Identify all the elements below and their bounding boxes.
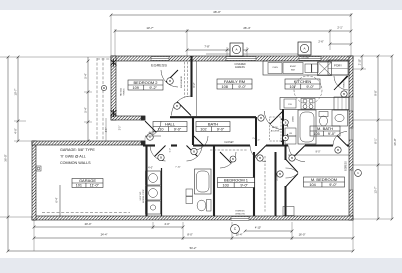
svg-text:B: B: [176, 104, 178, 108]
svg-text:26'-4": 26'-4": [243, 26, 250, 30]
svg-text:9'-0": 9'-0": [306, 85, 314, 89]
svg-text:FAMILY RM: FAMILY RM: [224, 79, 245, 84]
tick y219 right: [353, 218, 392, 220]
m.bath west wall: [282, 109, 284, 146]
closet callout bedroom2: [167, 78, 174, 85]
hall north wall: [170, 116, 256, 118]
garage east wall: [145, 145, 147, 216]
door callout msuite: [289, 155, 295, 161]
svg-text:104: 104: [309, 183, 315, 187]
svg-text:4'-0": 4'-0": [164, 222, 169, 226]
dim line 8-0 m.bedroom: [288, 154, 349, 156]
porch column A box: [230, 43, 243, 56]
laundry hall door: [155, 146, 166, 157]
svg-text:4'-0": 4'-0": [149, 132, 154, 135]
hall/bath wall: [192, 117, 194, 145]
kitchen hall door: [270, 111, 283, 124]
pantry door: [338, 76, 348, 86]
svg-text:102: 102: [200, 127, 206, 131]
svg-text:ATTIC: ATTIC: [272, 126, 278, 129]
svg-text:36'-0": 36'-0": [393, 138, 397, 145]
tick x292: [291, 222, 293, 240]
m.bedroom egress window: [349, 170, 353, 190]
bedroom2 east wall: [190, 56, 192, 97]
svg-text:GARAGE: 5/8" TYPE: GARAGE: 5/8" TYPE: [60, 148, 95, 152]
m.bath door: [337, 136, 347, 146]
m.bedroom double doors: [286, 159, 299, 173]
linen boxes: [285, 128, 296, 136]
room label bath: [196, 122, 230, 132]
roof overhang dashed top: [97, 58, 111, 60]
svg-text:9'-0": 9'-0": [329, 183, 337, 187]
entry post upper: [141, 116, 146, 121]
wic rod dashed: [264, 156, 266, 212]
svg-text:M. BEDROOM: M. BEDROOM: [311, 177, 337, 182]
bath tub: [195, 169, 212, 194]
svg-text:9'-2": 9'-2": [149, 86, 157, 90]
svg-text:4'-6": 4'-6": [106, 128, 108, 133]
pantry: [328, 60, 348, 75]
strip south wall seg1: [143, 144, 155, 146]
svg-text:B: B: [260, 116, 262, 120]
dishwasher: [284, 99, 296, 108]
strip south wall seg4: [266, 144, 288, 146]
family rm cabinet: [334, 97, 349, 110]
svg-text:13'-7": 13'-7": [374, 187, 378, 194]
svg-text:11'-0": 11'-0": [90, 183, 100, 187]
room label hall: [153, 122, 187, 132]
svg-text:COMMON WALLS: COMMON WALLS: [60, 161, 91, 165]
strip south wall seg2: [171, 144, 177, 146]
ext line y57 left: [0, 56, 111, 58]
garage door dashed: [42, 212, 130, 214]
svg-text:WINDOW: WINDOW: [235, 214, 246, 216]
svg-text:BATH: BATH: [208, 122, 218, 127]
door callout m.bedroom: [277, 171, 283, 177]
tick x88 y92: [84, 91, 92, 93]
bedroom2 closet shelf dashed: [187, 62, 189, 97]
garage wall symbol: [36, 166, 41, 171]
bedroom2 closet door: [166, 70, 178, 82]
tick y165 right: [353, 164, 392, 166]
room label garage: [72, 179, 103, 188]
entry notch wall: [111, 116, 145, 120]
porch slab edge: [206, 53, 300, 55]
bedroom2 left exterior wall: [111, 56, 116, 120]
holdown anchor top: [111, 59, 117, 67]
svg-text:2'-0": 2'-0": [252, 138, 257, 140]
hall shelves: [186, 189, 193, 196]
tick x232: [231, 222, 233, 240]
dimension row3 line left: [187, 49, 247, 51]
right chain small: [361, 56, 363, 69]
bedroom1 door: [255, 146, 266, 157]
svg-text:B: B: [343, 92, 345, 96]
room label bedroom 1: [218, 178, 255, 188]
bottom chain row1: [34, 226, 183, 228]
dimension 46-0 line: [111, 14, 351, 16]
right chain mid: [377, 56, 379, 219]
m.bedroom west wall a: [285, 146, 287, 160]
svg-text:101: 101: [76, 183, 82, 187]
m.bedroom window seat: [283, 207, 294, 216]
kitchen window: [299, 56, 321, 60]
strip south wall seg3: [193, 144, 250, 146]
closet rod dashed bedroom1: [210, 149, 248, 151]
svg-text:EGRESS: EGRESS: [235, 67, 245, 69]
column callout A2: [300, 44, 308, 52]
ext line x187: [186, 29, 188, 56]
entry recess edge: [105, 118, 107, 141]
family rm window: [349, 97, 353, 111]
svg-text:HALL: HALL: [165, 122, 176, 127]
svg-text:OVEN: OVEN: [272, 67, 278, 69]
svg-text:CLOSET: CLOSET: [277, 172, 279, 181]
svg-text:110: 110: [157, 127, 163, 131]
svg-text:9'-0": 9'-0": [238, 85, 246, 89]
porch column A2 box: [298, 42, 311, 55]
roof overhang dashed line a: [96, 58, 98, 141]
tick y121: [14, 120, 26, 122]
svg-text:2'-1": 2'-1": [337, 26, 342, 30]
pantry door second leaf: [334, 76, 347, 90]
garage top wall: [32, 141, 145, 145]
m.bedroom west wall b: [285, 186, 287, 216]
ext line y217 left: [0, 216, 32, 218]
left chain 36-0: [7, 57, 9, 251]
svg-text:105: 105: [313, 132, 319, 136]
svg-text:EGRESS: EGRESS: [346, 161, 348, 171]
hallway west wall: [255, 117, 257, 146]
room label m bedroom: [304, 177, 345, 187]
exterior right wall: [349, 56, 353, 220]
door callout laundry: [158, 154, 164, 160]
svg-text:COVERED: COVERED: [234, 64, 246, 66]
svg-text:CLOSET: CLOSET: [224, 141, 234, 144]
bottom chain row3 54-2: [8, 250, 353, 252]
svg-text:A: A: [303, 47, 305, 51]
svg-text:3'-0": 3'-0": [120, 126, 122, 131]
svg-text:13'-7": 13'-7": [146, 26, 153, 30]
door callout hall south: [191, 148, 197, 154]
svg-text:9'-0": 9'-0": [240, 183, 248, 187]
svg-text:B: B: [169, 79, 171, 83]
svg-text:6'-4": 6'-4": [56, 197, 59, 202]
room label m bath: [310, 126, 340, 136]
cooktop: [301, 99, 315, 110]
svg-text:24'-4": 24'-4": [101, 233, 108, 237]
svg-text:9'-8": 9'-8": [374, 90, 378, 95]
hall to m.suite door: [294, 146, 306, 158]
bedroom2 closet rod dashed: [184, 62, 186, 97]
bedroom1 east wall: [253, 152, 255, 216]
laundry tub: [146, 201, 161, 214]
oven box: [268, 63, 282, 74]
svg-text:6'-2": 6'-2": [193, 82, 196, 87]
svg-text:B: B: [160, 156, 162, 160]
svg-text:BEDROOM 2: BEDROOM 2: [133, 80, 158, 85]
room label family rm: [217, 79, 252, 89]
covered egress sliding door: [226, 56, 256, 60]
svg-text:A: A: [235, 48, 237, 52]
svg-text:9'-0": 9'-0": [174, 127, 182, 131]
svg-text:9'-0": 9'-0": [217, 127, 225, 131]
svg-text:4'-10": 4'-10": [255, 227, 261, 230]
counter cabinet: [283, 63, 303, 74]
roof overhang dashed line b: [102, 58, 104, 141]
ext line x111: [110, 15, 112, 56]
svg-text:B: B: [337, 148, 339, 152]
m.bath vanity: [332, 110, 348, 126]
svg-text:3 1/2" HT.: 3 1/2" HT.: [140, 191, 142, 200]
laundry closet wall: [161, 168, 163, 216]
svg-text:9'-0": 9'-0": [328, 132, 336, 136]
tick x153: [152, 222, 154, 229]
svg-text:B'FAST: B'FAST: [290, 65, 297, 68]
closet door b1: [220, 152, 231, 163]
strip south wall seg5: [305, 144, 333, 146]
tick x183: [182, 222, 184, 240]
svg-text:16'-0": 16'-0": [299, 233, 306, 237]
exterior top wall: [111, 56, 353, 61]
svg-text:108: 108: [222, 85, 228, 89]
svg-text:COLUMN: COLUMN: [301, 58, 309, 60]
svg-text:46'-0": 46'-0": [213, 10, 221, 14]
door callout kitchen hall: [258, 115, 264, 121]
svg-text:BEDROOM 1: BEDROOM 1: [224, 178, 249, 183]
right chain outer 36-0: [391, 56, 393, 219]
svg-text:109: 109: [133, 86, 139, 90]
svg-text:SSW21: SSW21: [124, 88, 126, 96]
svg-text:7'-8": 7'-8": [204, 45, 209, 49]
dim 4-0 entry top: [144, 138, 146, 142]
svg-text:LINEN: LINEN: [293, 115, 295, 121]
linen callout b: [283, 135, 289, 141]
washer: [146, 171, 161, 185]
pantry callout: [341, 91, 347, 97]
front entry door: [145, 121, 156, 132]
dryer: [146, 186, 161, 200]
bath door: [194, 136, 204, 146]
door callout m.bath: [335, 147, 341, 153]
tick y120 right: [353, 119, 392, 121]
svg-text:20'-0": 20'-0": [85, 222, 92, 226]
m.bath toilet: [319, 112, 328, 117]
kitchen upper counter: [263, 61, 349, 75]
svg-text:5'-4": 5'-4": [84, 73, 88, 78]
svg-text:BAR: BAR: [291, 69, 296, 72]
svg-text:2'-6": 2'-6": [318, 40, 323, 44]
door callout C entry: [147, 134, 154, 141]
wall symbol circle: [101, 85, 106, 90]
left chain inner: [17, 57, 19, 141]
svg-text:4'-0": 4'-0": [14, 128, 18, 133]
dim line 6-2 bedroom2: [196, 61, 198, 116]
svg-text:5'-0": 5'-0": [170, 148, 172, 153]
linen callout a: [283, 120, 289, 126]
svg-text:107: 107: [290, 85, 296, 89]
room label kitchen: [285, 79, 320, 89]
svg-text:B: B: [259, 156, 261, 160]
bottom small dim 4-10: [245, 230, 292, 232]
svg-text:'X' GWB @ ALL: 'X' GWB @ ALL: [60, 155, 86, 159]
kitchen eating circle dashed: [294, 76, 322, 104]
bedroom1 egress window: [231, 216, 249, 220]
room label bedroom 2: [128, 80, 163, 90]
entry dim 4-0: [145, 135, 161, 137]
svg-text:M. BATH: M. BATH: [317, 126, 333, 131]
svg-text:SHELF&ROD: SHELF&ROD: [181, 75, 183, 88]
svg-text:LIN: LIN: [289, 133, 293, 135]
entry post lower: [141, 141, 146, 146]
svg-text:HD 5001: HD 5001: [121, 87, 123, 96]
tick y69 right: [353, 68, 366, 70]
attic access dashed closet: [270, 117, 282, 141]
linen closet doors: [281, 119, 288, 127]
m.bath tub: [298, 110, 316, 144]
kitchen island counter: [280, 98, 349, 110]
door callout bedroom1: [257, 155, 263, 161]
bedroom2 door: [177, 102, 191, 116]
ext line x115: [114, 29, 116, 56]
svg-text:SSW21: SSW21: [344, 81, 346, 89]
svg-text:2'-10": 2'-10": [359, 59, 362, 65]
holdown anchor bottom: [111, 109, 117, 117]
svg-text:C: C: [149, 135, 151, 139]
door callout bedroom2: [174, 103, 181, 110]
svg-text:B: B: [279, 172, 281, 176]
ext line x34 bottom: [33, 220, 35, 251]
chain x88: [87, 57, 89, 141]
svg-text:4'-0": 4'-0": [148, 167, 153, 170]
column callout A: [232, 45, 240, 53]
tick y141: [14, 140, 32, 142]
svg-text:B: B: [232, 157, 234, 161]
svg-text:54'-2": 54'-2": [190, 246, 197, 250]
dimension row2 line: [115, 30, 351, 32]
refrigerator with cross: [318, 62, 332, 76]
svg-text:10'-7": 10'-7": [14, 89, 18, 96]
svg-text:5'-4": 5'-4": [84, 107, 88, 112]
svg-text:8'-0": 8'-0": [187, 233, 192, 237]
ext line x247: [246, 47, 248, 56]
bath toilet: [207, 200, 212, 212]
svg-text:EGRESS: EGRESS: [151, 64, 167, 68]
ext line x351: [350, 13, 352, 56]
garage left wall: [32, 141, 36, 220]
strip south wall seg6: [347, 144, 349, 146]
svg-text:B: B: [291, 156, 293, 160]
svg-text:7'-10": 7'-10": [175, 167, 181, 169]
svg-text:8'-1": 8'-1": [374, 138, 378, 143]
svg-text:ACCESS: ACCESS: [271, 130, 280, 133]
hall south door: [187, 146, 198, 157]
bedroom2 egress window: [151, 56, 169, 60]
wic east wall: [275, 152, 277, 216]
ext line x330: [329, 29, 331, 50]
m.bath window: [349, 128, 353, 140]
svg-text:KITCHEN: KITCHEN: [294, 79, 312, 84]
kitchen sink: [305, 64, 311, 73]
svg-text:P'DRY: P'DRY: [334, 64, 342, 68]
closet callout b1: [230, 156, 236, 162]
dimension 2-6 line: [330, 43, 351, 45]
svg-text:103: 103: [222, 183, 228, 187]
ext line x227: [226, 47, 228, 56]
svg-text:36'-0": 36'-0": [4, 154, 8, 161]
window callout C: [231, 225, 240, 234]
bottom chain row2: [34, 237, 353, 239]
svg-text:8'-0": 8'-0": [316, 151, 321, 154]
bedroom1 west wall: [213, 146, 215, 216]
tick y56 right: [353, 55, 392, 57]
exterior bottom wall: [32, 216, 353, 220]
svg-text:B: B: [193, 150, 195, 154]
svg-text:MODEL STOP: MODEL STOP: [143, 189, 145, 203]
ext line x353 bottom: [352, 220, 354, 251]
svg-text:EGRESS: EGRESS: [235, 211, 245, 213]
window callout right: [355, 170, 362, 177]
tick x88 y122: [84, 121, 92, 123]
